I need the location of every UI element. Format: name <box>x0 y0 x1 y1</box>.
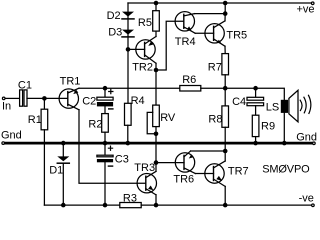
wire D2 to D3 <box>127 17 129 30</box>
wire TR4 collector to top node <box>195 13 226 15</box>
wire C4 to R9 <box>255 106 257 116</box>
svg-text:C3: C3 <box>115 154 129 166</box>
svg-text:TR6: TR6 <box>173 174 194 186</box>
wire TR1 emitter rail to R6 <box>79 87 180 89</box>
svg-text:LS: LS <box>266 101 279 113</box>
ground rail <box>5 142 313 145</box>
resistor R5 <box>153 11 160 31</box>
wire TR4 emitter to TR5 base <box>195 32 213 34</box>
wire TR2 collector down <box>155 63 157 70</box>
svg-text:SMØVPO: SMØVPO <box>262 163 310 175</box>
terminal Gnd right <box>313 142 316 145</box>
wire R8 through ground rail to lower node <box>224 127 226 151</box>
transistor TR7 <box>205 161 225 186</box>
wire C1 to TR1 base <box>27 97 68 99</box>
wire output node to C4 node <box>225 87 255 89</box>
node junction R4 ground <box>126 141 131 146</box>
svg-text:TR5: TR5 <box>226 29 247 41</box>
node junction C4 top <box>253 86 258 91</box>
wire TR5 emitter to R7 <box>224 46 226 53</box>
wire top node to +ve rail <box>224 3 226 14</box>
wire R5 top lead <box>155 3 157 11</box>
wire TR2 collector node down to RV <box>155 70 157 105</box>
node junction top R5 <box>154 1 159 6</box>
svg-text:TR7: TR7 <box>228 166 249 178</box>
wire node to TR6 base <box>156 162 184 164</box>
wire TR2 base node down to R4 <box>127 49 129 103</box>
resistor R4 <box>125 103 132 125</box>
terminal In <box>2 97 5 100</box>
svg-text:R8: R8 <box>208 114 222 126</box>
wire -ve rail left segment <box>44 204 119 206</box>
wire R9 to ground rail <box>255 137 257 143</box>
wire TR5 collector up <box>224 14 226 21</box>
svg-text:C4: C4 <box>232 96 246 108</box>
svg-text:R4: R4 <box>131 95 145 107</box>
svg-text:In: In <box>2 101 11 113</box>
wire C2 to R2 <box>104 106 106 113</box>
wire TR6 emitter to TR7 base <box>195 173 213 175</box>
wire TR3 emitter to -ve rail <box>155 195 157 205</box>
node junction D1 -ve <box>61 203 66 208</box>
terminal Gnd left <box>2 142 5 145</box>
svg-text:D1: D1 <box>49 165 63 177</box>
svg-text:R5: R5 <box>138 17 152 29</box>
svg-text:R6: R6 <box>182 74 196 86</box>
svg-text:TR2: TR2 <box>132 61 153 73</box>
resistor R7 <box>222 54 229 75</box>
svg-text:D3: D3 <box>108 27 122 39</box>
node junction C2 top <box>103 86 108 91</box>
wire In to C1 <box>5 97 19 99</box>
node junction TR3 collector <box>154 160 159 165</box>
node junction output R7 <box>223 86 228 91</box>
node TR2 base junction <box>126 47 131 52</box>
capacitor C1 <box>20 90 27 106</box>
terminal -ve <box>312 204 315 207</box>
node junction TR3 emitter <box>154 203 159 208</box>
wire node down to TR3 <box>155 163 157 172</box>
transistor TR5 <box>205 21 225 46</box>
wire TR2 collector to TR4 base <box>156 21 184 70</box>
wire TR1 collector down and to TR3 base <box>79 110 146 184</box>
resistor R3 <box>120 203 141 208</box>
wire R5 bottom to TR2 emitter <box>155 31 157 36</box>
svg-text:TR4: TR4 <box>175 36 196 48</box>
capacitor C4 <box>247 88 264 106</box>
terminal +ve <box>311 2 314 5</box>
node junction TR6 collector <box>223 149 228 154</box>
node junction D1 ground <box>61 141 66 146</box>
svg-text:+ve: +ve <box>297 4 315 16</box>
node junction speaker ground <box>282 141 287 146</box>
wire output node down to R8 <box>224 88 226 106</box>
wire from +ve rail down to D2 <box>127 3 129 12</box>
wire TR7 emitter to -ve rail <box>224 186 226 205</box>
wire D1 to -ve rail <box>62 163 64 205</box>
wire RV bottom <box>155 127 157 163</box>
resistor R2 <box>102 114 109 133</box>
node junction TR4 collector <box>223 11 228 16</box>
svg-text:R2: R2 <box>88 119 102 131</box>
resistor R8 <box>222 106 229 127</box>
potentiometer RV <box>147 105 159 134</box>
wire top +ve rail <box>128 2 311 4</box>
capacitor C2 <box>97 88 113 109</box>
wire C3 to -ve rail <box>104 162 106 205</box>
svg-text:Gnd: Gnd <box>296 131 317 143</box>
speaker LS <box>281 90 311 122</box>
wire R6 to output node <box>201 87 225 89</box>
wire node down to TR7 collector <box>224 151 226 161</box>
transistor TR2 <box>128 37 156 64</box>
svg-text:C2: C2 <box>82 95 96 107</box>
svg-text:-ve: -ve <box>299 193 314 205</box>
wire D3 to TR2 base node <box>127 35 129 50</box>
diode D2 <box>122 12 134 19</box>
transistor TR4 <box>175 12 195 34</box>
svg-text:TR1: TR1 <box>60 76 81 88</box>
node junction R9 ground <box>253 141 258 146</box>
resistor R9 <box>252 115 259 136</box>
node junction C3 -ve <box>103 203 108 208</box>
capacitor C3 <box>97 143 113 166</box>
wire -ve rail right segment <box>141 204 311 206</box>
node junction RV wiper <box>154 132 159 137</box>
resistor R6 <box>180 86 201 92</box>
svg-text:C1: C1 <box>18 79 32 91</box>
wire R1 bottom through ground rail to -ve rail <box>43 130 45 205</box>
wire node to TR6 collector <box>191 150 226 152</box>
wire R2 to ground rail <box>104 132 106 143</box>
svg-text:TR3: TR3 <box>134 162 155 174</box>
svg-text:RV: RV <box>160 112 176 124</box>
svg-text:Gnd: Gnd <box>1 129 22 141</box>
transistor TR6 <box>175 151 195 174</box>
node junction R2 ground <box>103 141 108 146</box>
svg-text:R1: R1 <box>28 114 42 126</box>
node junction TR7 emitter <box>223 203 228 208</box>
resistor R1 <box>41 98 48 129</box>
transistor TR3 <box>137 171 156 194</box>
wire R4 to ground rail <box>127 125 129 143</box>
svg-text:R7: R7 <box>208 61 222 73</box>
svg-text:R3: R3 <box>123 192 137 204</box>
transistor TR1 <box>59 88 79 110</box>
wire ground to D1 <box>62 143 64 156</box>
svg-text:D2: D2 <box>107 10 121 22</box>
wire R7 to output node <box>224 75 226 88</box>
wire output node to speaker <box>256 88 285 100</box>
node junction top TR5 collector <box>223 1 228 6</box>
svg-text:R9: R9 <box>261 121 275 133</box>
wire speaker to ground rail <box>283 113 285 143</box>
node junction R1 top <box>42 96 47 101</box>
diode D1 <box>57 156 69 163</box>
diode D3 <box>122 30 134 37</box>
node TR2 collector junction <box>154 68 159 73</box>
